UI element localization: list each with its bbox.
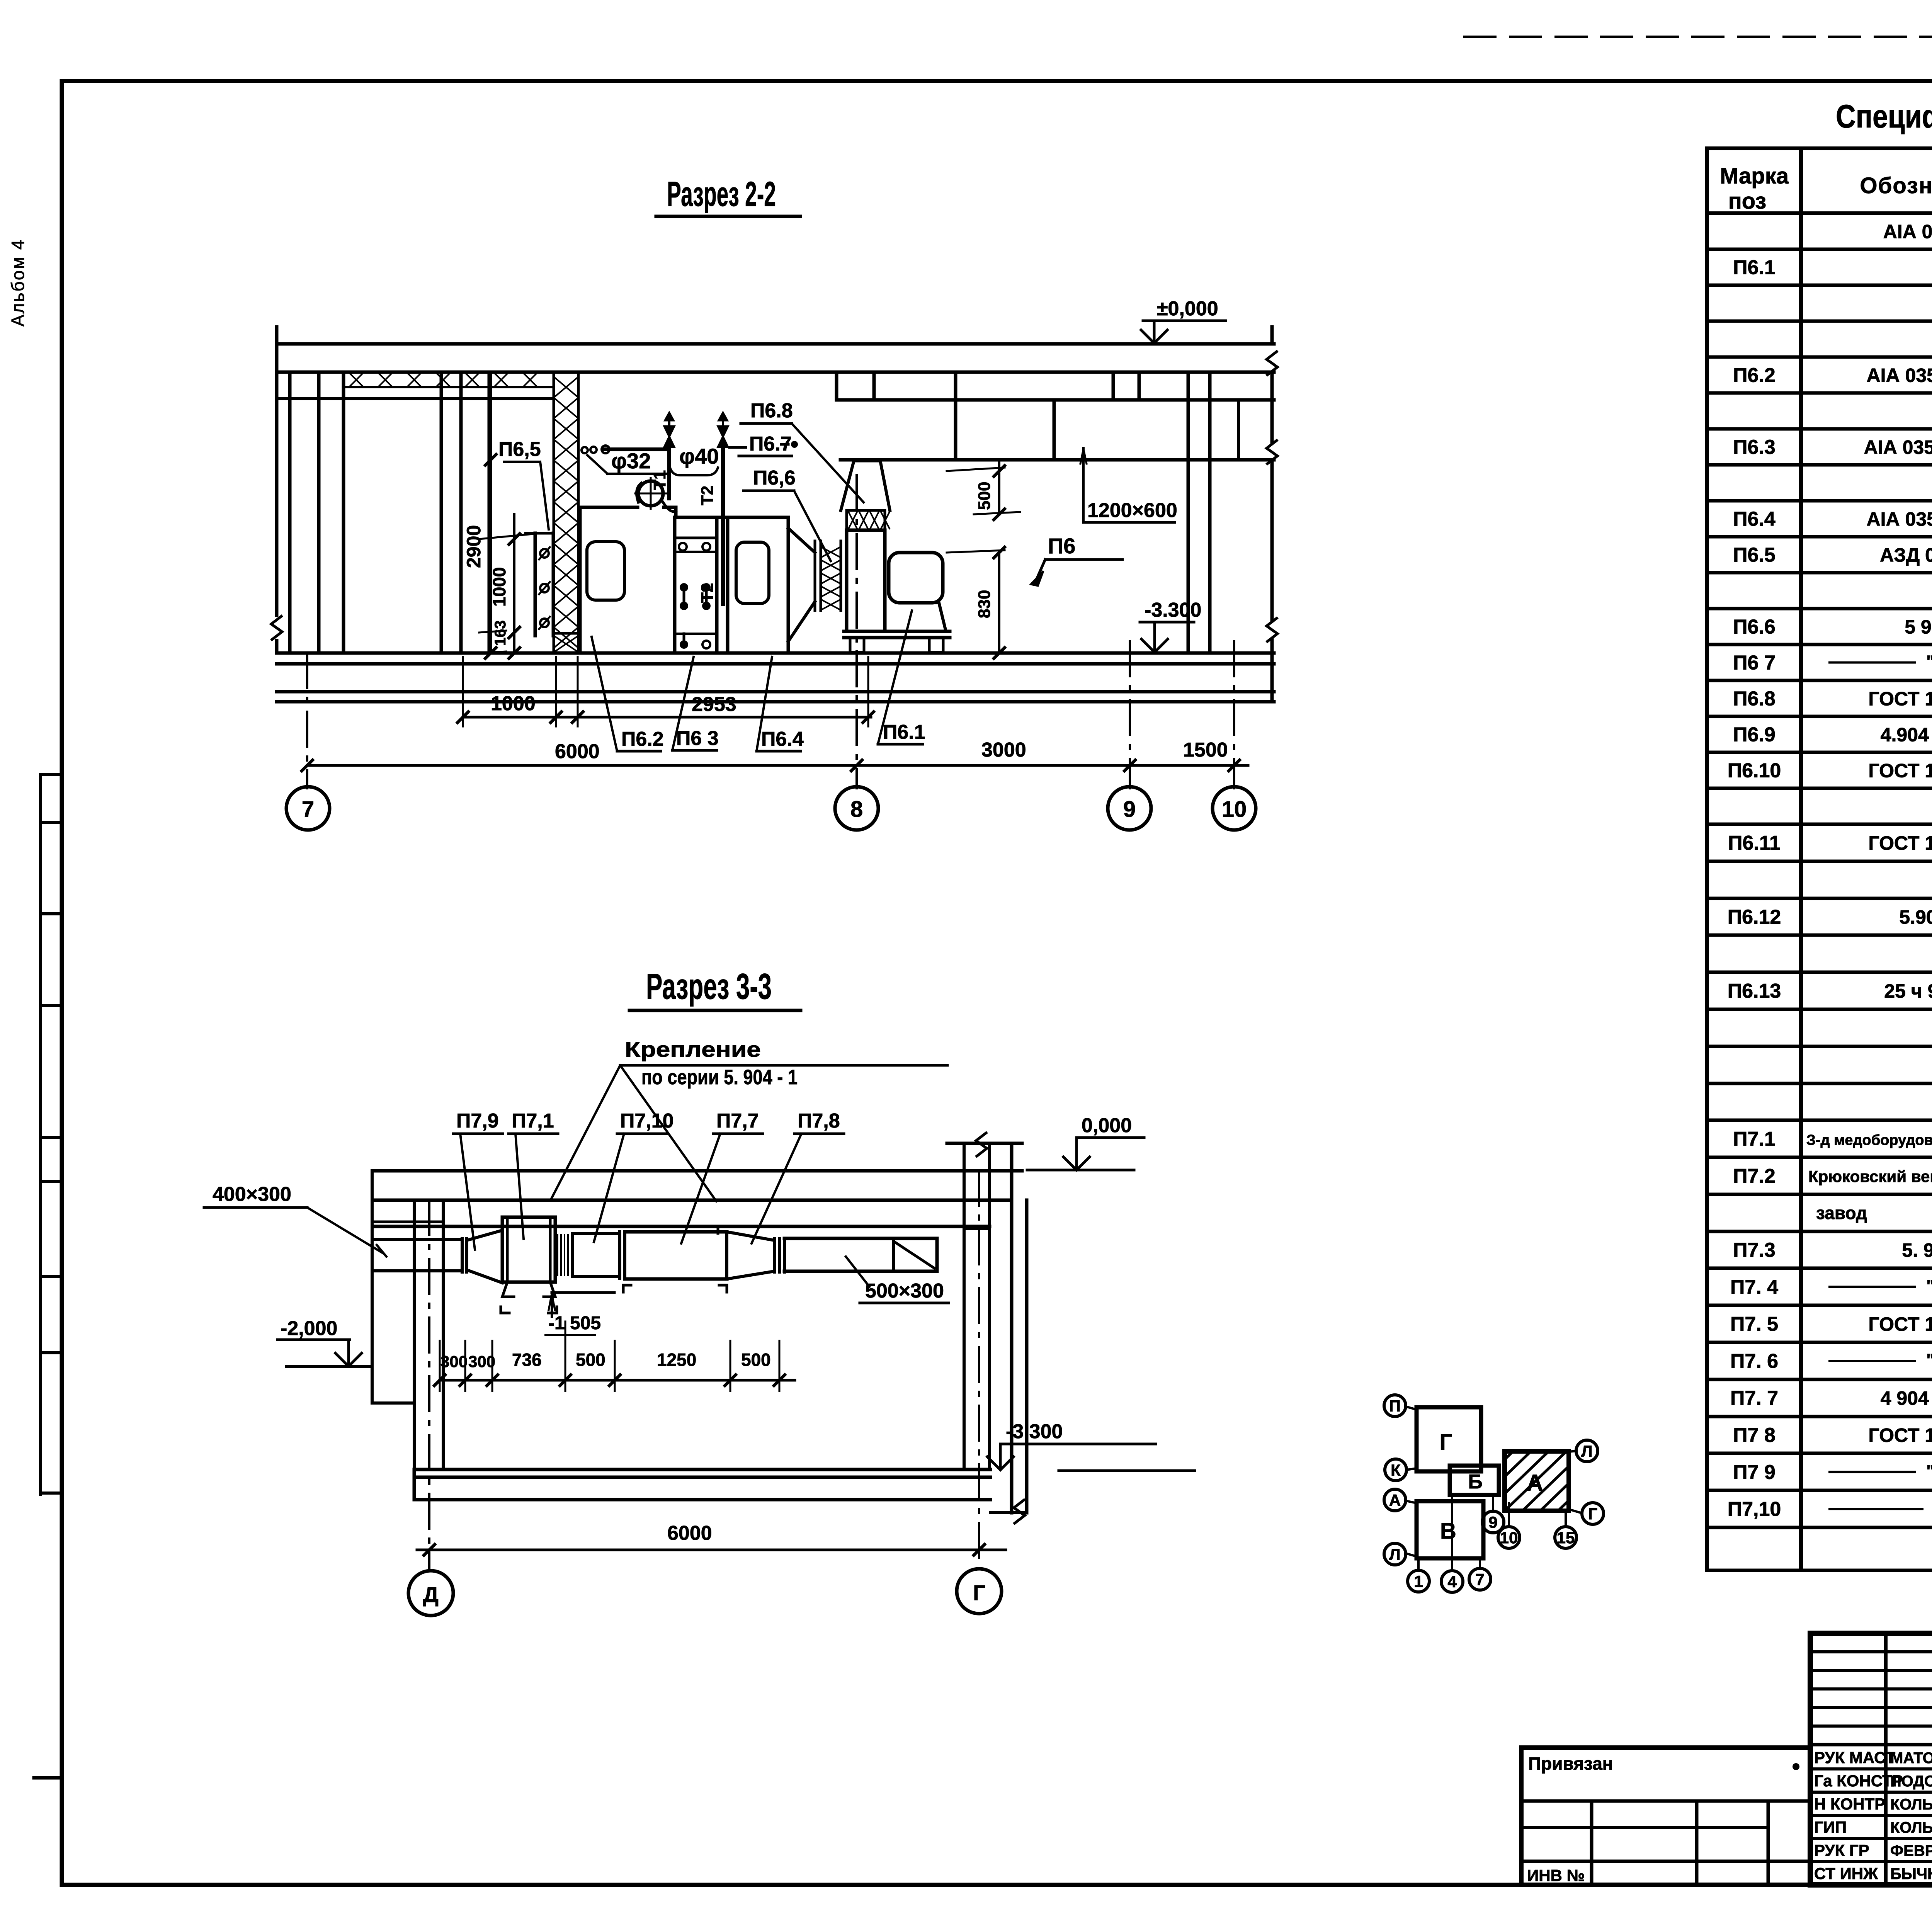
svg-text:Г: Г: [973, 1580, 985, 1605]
svg-text:П7. 6: П7. 6: [1730, 1350, 1778, 1372]
svg-text:Т2: Т2: [698, 486, 717, 505]
svg-text:П6.1: П6.1: [883, 721, 925, 743]
svg-text:П7,1: П7,1: [512, 1110, 554, 1132]
svg-text:П7 9: П7 9: [1733, 1461, 1776, 1483]
svg-text:Спецификация: Спецификация: [1836, 98, 1932, 134]
svg-text:300: 300: [468, 1352, 495, 1371]
svg-text:6000: 6000: [667, 1522, 712, 1544]
svg-text:Б: Б: [1468, 1471, 1482, 1493]
svg-text:Г: Г: [1588, 1505, 1597, 1523]
svg-text:П7. 5: П7. 5: [1730, 1313, 1778, 1335]
svg-text:500: 500: [975, 482, 994, 510]
svg-text:±0,000: ±0,000: [1157, 298, 1218, 320]
svg-text:5 904-5: 5 904-5: [1905, 616, 1932, 638]
svg-text:Привязан: Привязан: [1528, 1753, 1613, 1774]
svg-text:ГОСТ 19904-74: ГОСТ 19904-74: [1868, 1425, 1932, 1446]
svg-text:ГОСТ 19904-74: ГОСТ 19904-74: [1868, 688, 1932, 710]
svg-text:ФЕВРАЛЕВА: ФЕВРАЛЕВА: [1890, 1842, 1932, 1859]
svg-text:Л: Л: [1389, 1545, 1400, 1563]
svg-text:15: 15: [1557, 1529, 1575, 1547]
svg-text:": ": [1926, 1276, 1932, 1295]
svg-text:4.904 - 18/76: 4.904 - 18/76: [1881, 724, 1932, 746]
svg-text:ГИП: ГИП: [1814, 1818, 1847, 1836]
svg-text:П7,8: П7,8: [798, 1110, 840, 1132]
svg-text:В: В: [1440, 1519, 1456, 1544]
svg-text:7: 7: [1475, 1570, 1484, 1588]
svg-text:П6.5: П6.5: [1733, 544, 1776, 566]
svg-text:П7.2: П7.2: [1733, 1165, 1776, 1187]
svg-text:Разрез 2-2: Разрез 2-2: [667, 175, 776, 214]
svg-text:Л: Л: [1581, 1442, 1592, 1460]
svg-text:": ": [1926, 1350, 1932, 1369]
svg-text:КОЛЬЦОВА: КОЛЬЦОВА: [1890, 1819, 1932, 1836]
svg-text:0,000: 0,000: [1082, 1114, 1132, 1137]
svg-text:СТ ИНЖ: СТ ИНЖ: [1814, 1864, 1878, 1883]
svg-text:Га КОНСТР: Га КОНСТР: [1814, 1772, 1903, 1790]
svg-text:Крюковский вентиляторный: Крюковский вентиляторный: [1808, 1167, 1932, 1185]
svg-text:Т2: Т2: [698, 583, 717, 603]
svg-text:П: П: [1389, 1397, 1401, 1415]
svg-text:2900: 2900: [463, 525, 485, 568]
svg-text:П7.3: П7.3: [1733, 1239, 1776, 1262]
svg-text:Г: Г: [1440, 1430, 1452, 1455]
svg-text:П6.8: П6.8: [750, 400, 793, 422]
svg-text:500: 500: [576, 1350, 605, 1370]
svg-text:П6 7: П6 7: [1733, 652, 1776, 674]
svg-text:П6,6: П6,6: [753, 467, 796, 489]
svg-text:4: 4: [1447, 1573, 1457, 1591]
svg-text:П6: П6: [1048, 534, 1075, 558]
svg-text:3000: 3000: [981, 739, 1026, 761]
svg-text:АЗД 049 000: АЗД 049 000: [1880, 544, 1932, 566]
svg-text:А: А: [1526, 1470, 1543, 1496]
svg-text:З-д медоборудования г Казань: З-д медоборудования г Казань: [1806, 1132, 1932, 1148]
svg-text:10: 10: [1500, 1529, 1518, 1547]
svg-text:φ32: φ32: [611, 449, 651, 473]
svg-text:П6.3: П6.3: [1733, 436, 1776, 459]
svg-text:П6,5: П6,5: [498, 438, 541, 461]
svg-text:П6 3: П6 3: [676, 727, 719, 750]
svg-text:830: 830: [975, 590, 994, 618]
svg-text:6000: 6000: [555, 740, 600, 763]
svg-text:-3.300: -3.300: [1006, 1420, 1063, 1443]
svg-text:500: 500: [741, 1350, 771, 1370]
svg-text:ГОСТ 19904-74: ГОСТ 19904-74: [1868, 760, 1932, 782]
svg-text:Обозначение: Обозначение: [1860, 173, 1932, 198]
svg-text:Марка: Марка: [1720, 163, 1789, 189]
svg-text:9: 9: [1123, 797, 1136, 822]
svg-text:К: К: [1391, 1461, 1401, 1479]
svg-text:завод: завод: [1816, 1203, 1867, 1223]
svg-text:-2,000: -2,000: [281, 1317, 337, 1340]
svg-text:МАТОЯН: МАТОЯН: [1890, 1750, 1932, 1767]
svg-text:П6.10: П6.10: [1728, 760, 1781, 782]
svg-text:П7. 7: П7. 7: [1730, 1387, 1778, 1410]
svg-text:10: 10: [1222, 797, 1247, 822]
svg-text:Разрез 3-3: Разрез 3-3: [646, 966, 772, 1007]
svg-text:1500: 1500: [1183, 739, 1228, 761]
svg-text:2953: 2953: [692, 693, 736, 716]
svg-text:Альбом 4: Альбом 4: [8, 239, 28, 327]
svg-text:П7,10: П7,10: [620, 1110, 674, 1132]
svg-text:КОЛЬЦОВА: КОЛЬЦОВА: [1890, 1796, 1932, 1813]
svg-text:1000: 1000: [489, 567, 509, 607]
svg-text:9: 9: [1488, 1513, 1497, 1531]
svg-text:АIА 035.260 - 01: АIА 035.260 - 01: [1864, 437, 1932, 458]
svg-text:ИНВ №: ИНВ №: [1527, 1866, 1585, 1884]
svg-text:П7,10: П7,10: [1728, 1498, 1781, 1520]
svg-text:П7.1: П7.1: [1733, 1128, 1776, 1150]
svg-text:5. 904-5: 5. 904-5: [1902, 1240, 1932, 1261]
svg-text:736: 736: [512, 1350, 542, 1370]
svg-text:П6.12: П6.12: [1728, 906, 1781, 928]
svg-text:5.904 - 4: 5.904 - 4: [1899, 906, 1932, 928]
svg-text:8: 8: [850, 797, 863, 822]
svg-text:П6.2: П6.2: [1733, 364, 1776, 387]
svg-text:П7,9: П7,9: [456, 1110, 499, 1132]
svg-text:П6.13: П6.13: [1728, 980, 1781, 1002]
svg-text:П6.2: П6.2: [621, 728, 664, 750]
svg-text:П6.1: П6.1: [1733, 257, 1776, 279]
svg-text:1250: 1250: [657, 1350, 696, 1370]
svg-text:": ": [1926, 652, 1932, 671]
svg-text:1000: 1000: [491, 692, 536, 715]
svg-text:ГОСТ 19904-74: ГОСТ 19904-74: [1868, 832, 1932, 854]
svg-text:АIА 036 000: АIА 036 000: [1883, 221, 1932, 243]
svg-text:-1 505: -1 505: [548, 1313, 601, 1333]
svg-text:163: 163: [492, 620, 509, 646]
svg-text:БЫЧКОВА: БЫЧКОВА: [1890, 1866, 1932, 1883]
svg-text:П7. 4: П7. 4: [1730, 1276, 1778, 1298]
svg-text:25 ч 931 нж: 25 ч 931 нж: [1884, 980, 1932, 1002]
svg-text:РУК ГР: РУК ГР: [1814, 1841, 1869, 1859]
svg-text:поз: поз: [1728, 189, 1767, 214]
svg-text:Н КОНТР: Н КОНТР: [1814, 1795, 1885, 1813]
svg-text:П6.8: П6.8: [1733, 688, 1776, 710]
svg-text:П6.4: П6.4: [1733, 508, 1776, 531]
svg-text:Крепление: Крепление: [625, 1037, 761, 1061]
svg-text:П7 8: П7 8: [1733, 1424, 1776, 1447]
svg-text:7: 7: [302, 797, 314, 822]
svg-text:ПОДОЛЬСКИЙ: ПОДОЛЬСКИЙ: [1890, 1772, 1932, 1790]
svg-text:": ": [1926, 1461, 1932, 1480]
svg-text:1200×600: 1200×600: [1087, 499, 1177, 522]
svg-text:φ40: φ40: [679, 444, 719, 468]
svg-text:300: 300: [440, 1352, 468, 1371]
svg-text:400×300: 400×300: [213, 1183, 291, 1206]
svg-text:-3.300: -3.300: [1145, 599, 1201, 621]
svg-text:4 904 - 18/76: 4 904 - 18/76: [1881, 1388, 1932, 1409]
svg-text:А: А: [1389, 1491, 1401, 1509]
svg-text:П6.6: П6.6: [1733, 616, 1776, 638]
svg-text:Д: Д: [423, 1582, 439, 1607]
svg-text:П6.11: П6.11: [1728, 832, 1781, 854]
svg-text:П7,7: П7,7: [716, 1110, 759, 1132]
svg-text:АIА 035010 - 01: АIА 035010 - 01: [1867, 509, 1932, 530]
svg-text:П6.9: П6.9: [1733, 724, 1776, 746]
svg-text:500×300: 500×300: [865, 1280, 944, 1302]
svg-text:1: 1: [1414, 1572, 1423, 1590]
svg-text:по серии 5. 904 - 1: по серии 5. 904 - 1: [641, 1066, 798, 1089]
svg-text:РУК МАСТ: РУК МАСТ: [1814, 1748, 1895, 1767]
svg-text:П6.4: П6.4: [761, 728, 804, 750]
svg-text:ГОСТ 19904-74: ГОСТ 19904-74: [1868, 1313, 1932, 1335]
svg-text:АIА 035290 - 01: АIА 035290 - 01: [1867, 365, 1932, 386]
